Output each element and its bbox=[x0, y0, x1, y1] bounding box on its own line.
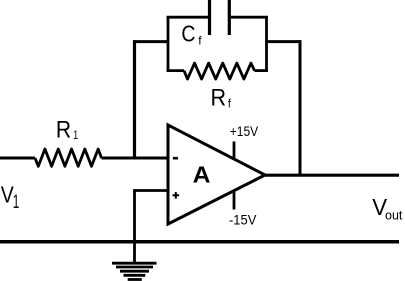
resistor Rf bbox=[184, 63, 255, 79]
pin: -15V supply bbox=[233, 192, 236, 210]
wire: input from left edge to R1 bbox=[0, 157, 35, 160]
pin: non-inverting input plus sign bbox=[173, 192, 180, 199]
wire: box right to output drop bbox=[267, 40, 302, 43]
capacitor Cf left plate bbox=[208, 0, 211, 35]
wire: bottom rail bbox=[0, 240, 399, 244]
svg-text:C: C bbox=[181, 21, 195, 47]
svg-text:1: 1 bbox=[13, 192, 20, 212]
svg-text:+15V: +15V bbox=[230, 124, 259, 140]
svg-text:-15V: -15V bbox=[229, 212, 257, 227]
svg-text:R: R bbox=[56, 116, 71, 143]
wire: feedback junction to box left bbox=[133, 40, 168, 43]
svg-text:out: out bbox=[385, 209, 403, 223]
node A: feedback junction vertical wire bbox=[133, 40, 136, 158]
wire: output bbox=[265, 174, 399, 177]
wire: non-inverting input bbox=[133, 189, 168, 192]
wire: Rf to box bottom right bbox=[255, 69, 268, 72]
svg-text:1: 1 bbox=[73, 130, 78, 142]
svg-text:A: A bbox=[193, 162, 211, 188]
wire: feedback box right vertical bbox=[265, 16, 268, 72]
resistor R1 bbox=[35, 149, 102, 166]
wire: feedback drop to output bbox=[299, 40, 302, 175]
wire: non-inverting input to ground bbox=[133, 191, 136, 263]
op-amp U1 (A) bbox=[168, 125, 265, 224]
svg-text:R: R bbox=[211, 84, 227, 111]
wire: capacitor to box top right bbox=[231, 16, 268, 19]
wire: R1 to op-amp inverting input bbox=[102, 157, 169, 160]
ground bbox=[112, 263, 157, 279]
wire: feedback box left vertical bbox=[167, 16, 170, 72]
wire: box top left to capacitor bbox=[167, 16, 208, 19]
pin: +15V supply bbox=[233, 142, 236, 161]
pin: inverting input minus sign bbox=[173, 157, 178, 160]
capacitor Cf right plate bbox=[228, 0, 231, 35]
wire: box bottom left to Rf bbox=[167, 69, 184, 72]
